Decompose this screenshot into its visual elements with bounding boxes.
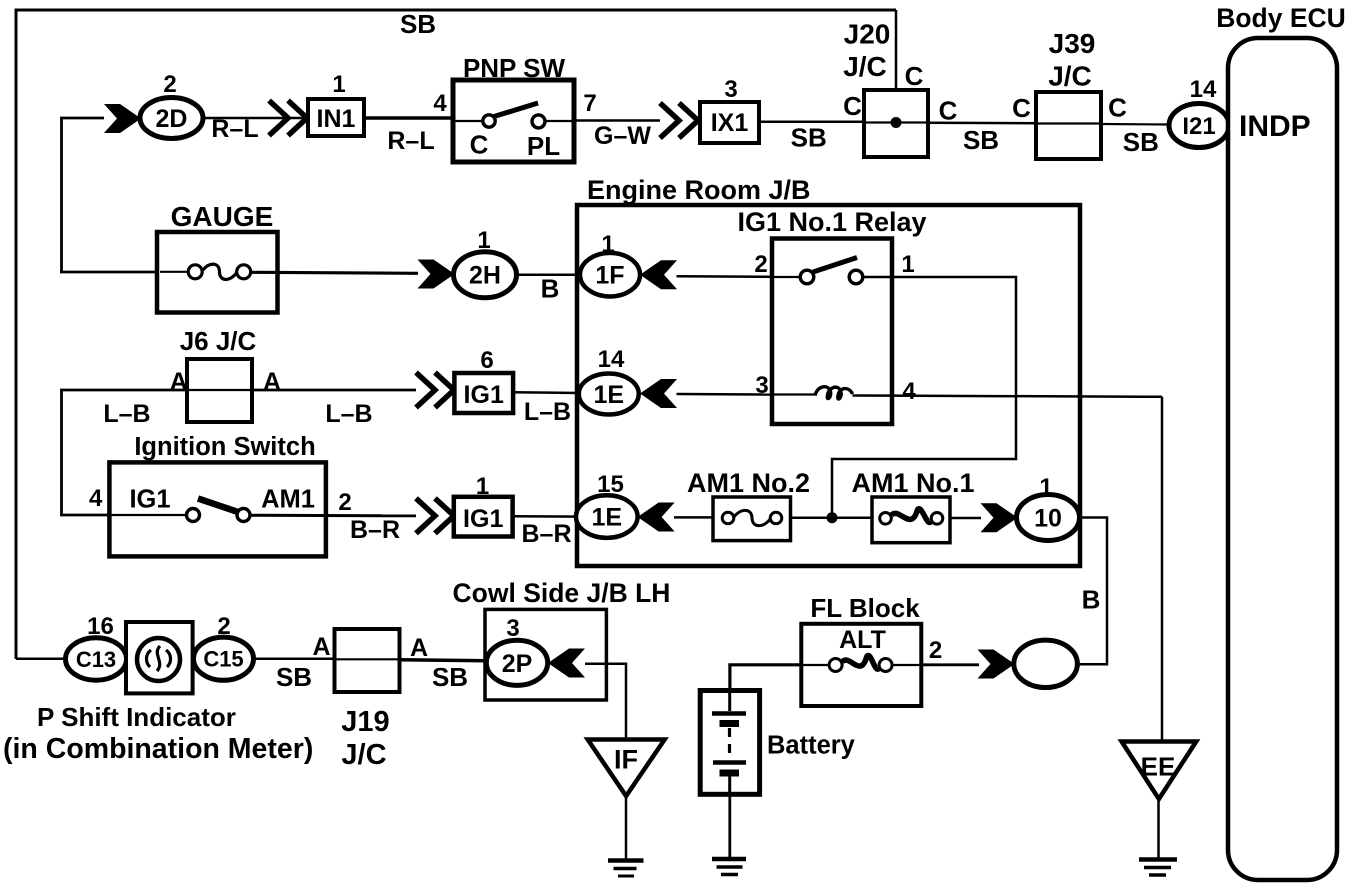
inline connector chevrons (to IX1): [660, 103, 698, 138]
label SB (C15 to J19): [276, 662, 312, 692]
svg-text:C: C: [939, 96, 958, 126]
wire: inner left vertical bus segment (L-B row to Ignition Switch pin 4): [60, 389, 63, 516]
junction connector J20 J/C box: [864, 90, 928, 157]
svg-text:1: 1: [901, 251, 914, 278]
wire: IG1 connector to 1E (B-R): [513, 515, 581, 518]
relay IG1 No.1 box: [772, 239, 892, 425]
wire: 1E arrow to relay pin 3: [677, 393, 773, 396]
relay switch contact right: [849, 270, 863, 284]
ground symbol (EE): [1139, 860, 1177, 876]
connector 1F: [580, 253, 640, 297]
label SB (J39 to I21): [1123, 127, 1159, 157]
label (in Combination Meter): [3, 733, 313, 765]
pin 2 of 2D: [163, 71, 176, 98]
ignition switch contact AM1: [237, 509, 250, 522]
svg-text:PL: PL: [527, 131, 560, 161]
wire: C15 to J19 (SB): [254, 657, 335, 660]
svg-text:1: 1: [476, 473, 489, 500]
wire: ignition AM1 to chevrons (B-R): [250, 514, 416, 518]
svg-text:EE: EE: [1141, 752, 1176, 782]
wire: FL Block to arrow: [921, 663, 979, 666]
fuse block FL Block box: [801, 624, 921, 706]
svg-text:2H: 2H: [469, 262, 501, 290]
label J/C (J20): [843, 51, 887, 82]
label R-L: [211, 115, 258, 143]
pin 4 of PNP SW: [433, 90, 447, 117]
relay switch lever: [813, 258, 857, 273]
connector C15: [194, 637, 254, 680]
connector arrow into 2D: [104, 104, 141, 133]
svg-text:3: 3: [506, 615, 519, 642]
svg-text:1E: 1E: [594, 381, 625, 409]
label B (2H to 1F): [541, 274, 560, 304]
label L-B (left of J6): [103, 400, 150, 428]
svg-text:R–L: R–L: [211, 115, 258, 143]
ground connector IF triangle: [588, 740, 665, 797]
pin 2 of Ignition Switch: [338, 489, 351, 516]
svg-text:1: 1: [601, 231, 614, 258]
label GAUGE: [171, 201, 274, 232]
label J39: [1049, 28, 1096, 59]
indicator lamp box: [126, 622, 193, 693]
wire: 2D to IN1 (R-L): [203, 117, 308, 120]
svg-text:15: 15: [597, 471, 624, 498]
wire: inner bus to Ignition Switch pin 4: [60, 514, 110, 517]
svg-text:J/C: J/C: [1048, 61, 1092, 92]
svg-text:14: 14: [598, 346, 625, 373]
label J6 J/C: [180, 326, 257, 356]
wire: 1E arrow to AM1 No.2: [674, 516, 713, 519]
wire: top SB bus drop into J20: [895, 10, 898, 123]
indicator lamp bulb: [137, 638, 180, 681]
battery plate short top: [720, 720, 740, 727]
wire: J39 to I21 (SB): [1101, 123, 1170, 126]
battery box: [700, 691, 759, 795]
svg-text:I21: I21: [1182, 113, 1215, 140]
svg-text:C: C: [843, 91, 862, 121]
svg-text:IX1: IX1: [711, 109, 749, 137]
svg-text:Ignition Switch: Ignition Switch: [134, 433, 315, 461]
pin 6 of IG1 connector: [480, 347, 493, 374]
wire: through J6: [187, 389, 252, 391]
switch PNP SW box: [453, 80, 574, 162]
label B-R (at 1E pin 15): [521, 520, 571, 548]
svg-text:C13: C13: [76, 647, 116, 672]
wire: relay pin 4 drop to EE: [1161, 397, 1164, 742]
wire: inner bus to J6 J/C (L-B): [60, 389, 187, 392]
wire: ignition internal left lead: [109, 514, 186, 516]
svg-text:IG1: IG1: [129, 486, 170, 514]
label AM1 No.2: [687, 468, 810, 498]
fuse AM1 No.1 box: [872, 497, 950, 543]
wire: outer bus to C13: [16, 657, 66, 660]
label AM1 No.1: [851, 468, 974, 498]
svg-text:SB: SB: [1123, 127, 1159, 157]
relay coil: [815, 387, 853, 399]
svg-text:SB: SB: [400, 9, 436, 39]
svg-text:L–B: L–B: [103, 400, 150, 428]
label C (J20 right): [939, 96, 958, 126]
label A (J6 left): [170, 368, 188, 396]
connector 2P: [486, 640, 547, 685]
wire: top SB bus: [15, 9, 897, 12]
wire: IF to ground: [625, 796, 628, 860]
fuse AM1 No.2 box: [713, 497, 791, 541]
wire: IG1 connector to 1E (L-B): [513, 391, 581, 394]
svg-text:J/C: J/C: [341, 739, 386, 771]
label SB (J20 to J39): [963, 125, 999, 155]
battery terminal stubs: [728, 691, 731, 795]
connector (unlabeled): [1014, 640, 1078, 687]
svg-text:2: 2: [754, 251, 767, 278]
svg-text:J19: J19: [341, 706, 389, 738]
wire: 1F arrow to relay pin 2: [677, 275, 802, 278]
label IG1 (ignition terminal): [129, 486, 170, 514]
fuse GAUGE box: [157, 232, 278, 313]
label SB (top bus): [400, 9, 436, 39]
wire: AM1 No.2 to junction: [791, 516, 833, 519]
connector arrow into blank connector: [978, 650, 1015, 679]
svg-text:INDP: INDP: [1239, 110, 1311, 143]
svg-text:L–B: L–B: [524, 398, 571, 426]
wire: 2H to 1F (B): [517, 273, 582, 276]
connector 2D: [140, 98, 203, 139]
label Cowl Side J/B LH: [453, 578, 671, 608]
svg-text:SB: SB: [791, 123, 827, 153]
label AM1 (ignition terminal): [261, 486, 315, 514]
wire: battery negative to ground: [728, 794, 731, 858]
connector 1E pin 14: [579, 374, 639, 415]
svg-text:SB: SB: [432, 662, 468, 692]
svg-text:P Shift Indicator: P Shift Indicator: [37, 702, 236, 732]
ECU Body ECU outline: [1228, 38, 1337, 880]
wire: IX1 to J20 (SB): [759, 121, 864, 124]
wire: through J39: [1036, 122, 1101, 124]
svg-text:14: 14: [1190, 76, 1217, 103]
wire: relay pin 4 to EE drop: [853, 396, 1163, 397]
label C (J39 right): [1108, 93, 1127, 123]
label IF: [614, 745, 638, 775]
label Body ECU: [1216, 3, 1346, 33]
svg-text:R–L: R–L: [387, 127, 434, 155]
pin 1 of IN1: [332, 71, 345, 98]
svg-text:B: B: [541, 274, 560, 304]
wire: J6 to IG1 connector (L-B): [252, 389, 416, 392]
label SB (J19 to 2P): [432, 662, 468, 692]
fuse GAUGE element: [160, 264, 251, 279]
svg-text:IG1: IG1: [464, 381, 504, 409]
pin 1 of IG1 No.1 Relay: [901, 251, 914, 278]
svg-text:C: C: [1012, 93, 1031, 123]
pin 14 of 1E: [598, 346, 625, 373]
switch PNP SW contact C: [483, 115, 495, 127]
svg-text:2: 2: [929, 637, 942, 664]
node: junction dot inside J20: [891, 117, 902, 128]
label L-B (J6 to IG1): [325, 400, 372, 428]
svg-text:1E: 1E: [592, 504, 623, 532]
wire: GAUGE fuse to 2H: [251, 272, 418, 273]
label ALT (fusible link): [839, 626, 886, 654]
ground symbol (IF): [608, 861, 644, 877]
switch Ignition Switch box: [109, 462, 326, 556]
junction connector IN1: [308, 99, 364, 136]
junction block Cowl Side J/B LH box: [485, 609, 606, 700]
label EE: [1141, 752, 1176, 782]
svg-text:G–W: G–W: [594, 122, 651, 150]
fusible link AM1 No.1 element: [880, 509, 943, 524]
junction connector IX1: [700, 102, 759, 143]
svg-text:2: 2: [217, 613, 230, 640]
pin 4 of IG1 No.1 Relay: [902, 378, 916, 405]
label Battery: [767, 732, 856, 760]
svg-text:2: 2: [338, 489, 351, 516]
svg-text:IG1 No.1 Relay: IG1 No.1 Relay: [737, 207, 926, 237]
label R-L (IN1 to PNP SW): [387, 127, 434, 155]
wire: relay internal pin 2 lead: [772, 276, 801, 278]
relay switch contact left: [800, 270, 814, 284]
label B-R (ignition to IG1): [350, 516, 400, 544]
pin 1 of IG1 connector (B-R): [476, 473, 489, 500]
connector C13: [66, 638, 127, 680]
svg-text:1: 1: [477, 227, 490, 254]
battery internal dashed link: [728, 728, 731, 759]
pin 7 of PNP SW: [583, 90, 596, 117]
svg-text:PNP SW: PNP SW: [463, 53, 566, 83]
svg-text:SB: SB: [276, 662, 312, 692]
label J19: [341, 706, 389, 738]
svg-text:A: A: [410, 634, 428, 662]
pin 15 of 1E: [597, 471, 624, 498]
svg-text:2: 2: [163, 71, 176, 98]
wire: relay pin 1 to junction above AM1 No.1: [832, 277, 1016, 513]
wire: FL internal right: [892, 664, 921, 666]
label G-W: [594, 122, 651, 150]
junction connector J19 J/C box: [335, 629, 400, 692]
label L-B (at 1E pin 14): [524, 398, 571, 426]
ignition switch contact IG1: [187, 509, 200, 522]
svg-text:J6 J/C: J6 J/C: [180, 326, 257, 356]
junction block Engine Room J/B box: [577, 205, 1080, 566]
node: junction dot (relay feed): [827, 512, 838, 523]
svg-text:J20: J20: [844, 19, 891, 50]
wire: inner left vertical bus segment (2D row to GAUGE row): [60, 117, 63, 272]
wire: 2P arrow to IF drop: [585, 664, 626, 741]
svg-text:IF: IF: [614, 745, 638, 775]
inline connector chevrons (to IG1 L-B): [416, 373, 454, 408]
svg-text:6: 6: [480, 347, 493, 374]
svg-text:AM1 No.2: AM1 No.2: [687, 468, 810, 498]
pin 3 of 2P: [506, 615, 519, 642]
wire: AM1 No.1 to arrow: [950, 517, 981, 520]
svg-text:J39: J39: [1049, 28, 1096, 59]
label INDP terminal: [1239, 110, 1311, 143]
label J20: [844, 19, 891, 50]
wire: FL internal left: [801, 664, 829, 666]
battery plate long bottom: [713, 760, 746, 765]
pin 14 of Body ECU INDP: [1190, 76, 1217, 103]
wire: through J20: [864, 121, 928, 123]
inline connector chevrons (2D to IN1): [269, 101, 307, 136]
indicator lamp filament: [146, 646, 170, 671]
svg-text:16: 16: [87, 613, 114, 640]
svg-text:ALT: ALT: [839, 626, 886, 654]
svg-text:1: 1: [1039, 474, 1052, 501]
svg-text:B: B: [1082, 585, 1101, 615]
battery plate short bottom: [720, 770, 740, 777]
svg-text:A: A: [263, 368, 281, 396]
svg-text:4: 4: [433, 90, 447, 117]
wire: J20 to J39 (SB): [928, 122, 1036, 125]
pin 3 of IG1 No.1 Relay: [755, 372, 768, 399]
connector arrow into 1F: [640, 260, 677, 289]
fuse AM1 No.2 element: [722, 510, 782, 525]
wire: inner bus to 2D arrow: [60, 117, 104, 120]
battery plate long top: [712, 711, 746, 716]
label J/C (J19): [341, 739, 386, 771]
svg-text:Battery: Battery: [767, 732, 856, 760]
wire: PNP SW internal right: [545, 120, 574, 122]
pin 2 of IG1 No.1 Relay: [754, 251, 767, 278]
svg-text:IN1: IN1: [317, 105, 356, 133]
svg-text:AM1: AM1: [261, 486, 315, 514]
connector arrow into 1E pin 14: [640, 379, 677, 408]
svg-text:Cowl Side J/B LH: Cowl Side J/B LH: [453, 578, 671, 608]
connector arrow into 1E pin 15: [638, 503, 675, 532]
wire: 10 to blank connector (B): [1078, 518, 1107, 665]
junction connector IG1 (B-R feed): [454, 497, 513, 537]
label FL Block: [810, 593, 920, 623]
pin 4 of Ignition Switch: [89, 485, 103, 512]
wire: relay internal pin 3 lead: [772, 393, 816, 395]
label PNP SW: [463, 53, 566, 83]
label C (J20 left): [843, 91, 862, 121]
svg-text:4: 4: [902, 378, 916, 405]
wire: J19 to 2P (SB): [400, 660, 487, 661]
svg-text:4: 4: [89, 485, 103, 512]
fusible link ALT element: [829, 655, 892, 671]
pin 16 of C13: [87, 613, 114, 640]
label A (J19 right): [410, 634, 428, 662]
wire: battery positive to FL Block: [730, 665, 801, 691]
wire: EE to ground: [1157, 799, 1160, 859]
label Ignition Switch: [134, 433, 315, 461]
svg-text:10: 10: [1034, 505, 1062, 533]
wire: PNP SW internal left: [453, 120, 483, 122]
label SB (IX1 to J20): [791, 123, 827, 153]
svg-text:Engine Room J/B: Engine Room J/B: [587, 175, 811, 205]
svg-text:(in Combination Meter): (in Combination Meter): [3, 733, 313, 765]
label B (10 to blank connector): [1082, 585, 1101, 615]
svg-text:2D: 2D: [156, 105, 188, 133]
pin 2 of FL Block: [929, 637, 942, 664]
junction connector J6 J/C box: [187, 359, 252, 422]
svg-text:B–R: B–R: [350, 516, 400, 544]
svg-text:A: A: [312, 633, 330, 661]
label C (PNP SW terminal): [470, 130, 489, 160]
connector 2H: [454, 252, 517, 298]
label Engine Room J/B: [587, 175, 811, 205]
switch PNP SW contact PL: [532, 115, 545, 128]
label C (J20 top): [905, 61, 924, 91]
svg-text:J/C: J/C: [843, 51, 887, 82]
pin 1 of 2H: [477, 227, 490, 254]
svg-text:1F: 1F: [595, 262, 624, 290]
label PL (PNP SW terminal): [527, 131, 560, 161]
svg-text:L–B: L–B: [325, 400, 372, 428]
connector 1E pin 15: [576, 495, 638, 538]
svg-text:C15: C15: [203, 647, 243, 672]
svg-text:7: 7: [583, 90, 596, 117]
svg-text:A: A: [170, 368, 188, 396]
svg-text:B–R: B–R: [521, 520, 571, 548]
connector I21: [1169, 104, 1229, 148]
wire: IN1 to PNP SW (R-L): [364, 116, 453, 120]
svg-text:C: C: [470, 130, 489, 160]
ignition switch lever: [198, 499, 244, 515]
svg-text:C: C: [1108, 93, 1127, 123]
wire: left outer vertical bus (top SB line down to C13 row): [15, 9, 18, 659]
svg-text:1: 1: [332, 71, 345, 98]
svg-text:IG1: IG1: [463, 505, 503, 533]
ground symbol (battery): [712, 859, 746, 875]
label A (J6 right): [263, 368, 281, 396]
wire: inner bus to GAUGE fuse: [60, 271, 160, 274]
connector arrow into 10: [981, 503, 1018, 532]
ground connector EE triangle: [1122, 742, 1197, 800]
label IG1 No.1 Relay: [737, 207, 926, 237]
junction connector J39 J/C box: [1036, 92, 1101, 159]
wire: junction to AM1 No.1: [832, 516, 872, 519]
label A (J19 left): [312, 633, 330, 661]
switch PNP SW lever: [494, 103, 538, 117]
pin 3 of IX1: [724, 76, 737, 103]
svg-text:GAUGE: GAUGE: [171, 201, 274, 232]
label J/C (J39): [1048, 61, 1092, 92]
connector arrow into 2H: [418, 260, 455, 289]
svg-text:2P: 2P: [502, 650, 533, 678]
svg-text:AM1 No.1: AM1 No.1: [851, 468, 974, 498]
svg-text:Body ECU: Body ECU: [1216, 3, 1346, 33]
svg-text:3: 3: [724, 76, 737, 103]
connector arrow into 2P: [548, 649, 585, 678]
wire: through J19: [335, 658, 400, 660]
pin 1 of 1F: [601, 231, 614, 258]
pin 2 of C15: [217, 613, 230, 640]
junction connector IG1 (L-B feed): [454, 373, 513, 413]
connector 10: [1017, 495, 1080, 541]
wire: PNP SW to IX1 (G-W): [574, 119, 660, 122]
label C (J39 left): [1012, 93, 1031, 123]
inline connector chevrons (to IG1 B-R): [416, 498, 454, 533]
label P Shift Indicator: [37, 702, 236, 732]
svg-text:FL Block: FL Block: [810, 593, 920, 623]
svg-text:C: C: [905, 61, 924, 91]
pin 1 of 10: [1039, 474, 1052, 501]
svg-text:SB: SB: [963, 125, 999, 155]
